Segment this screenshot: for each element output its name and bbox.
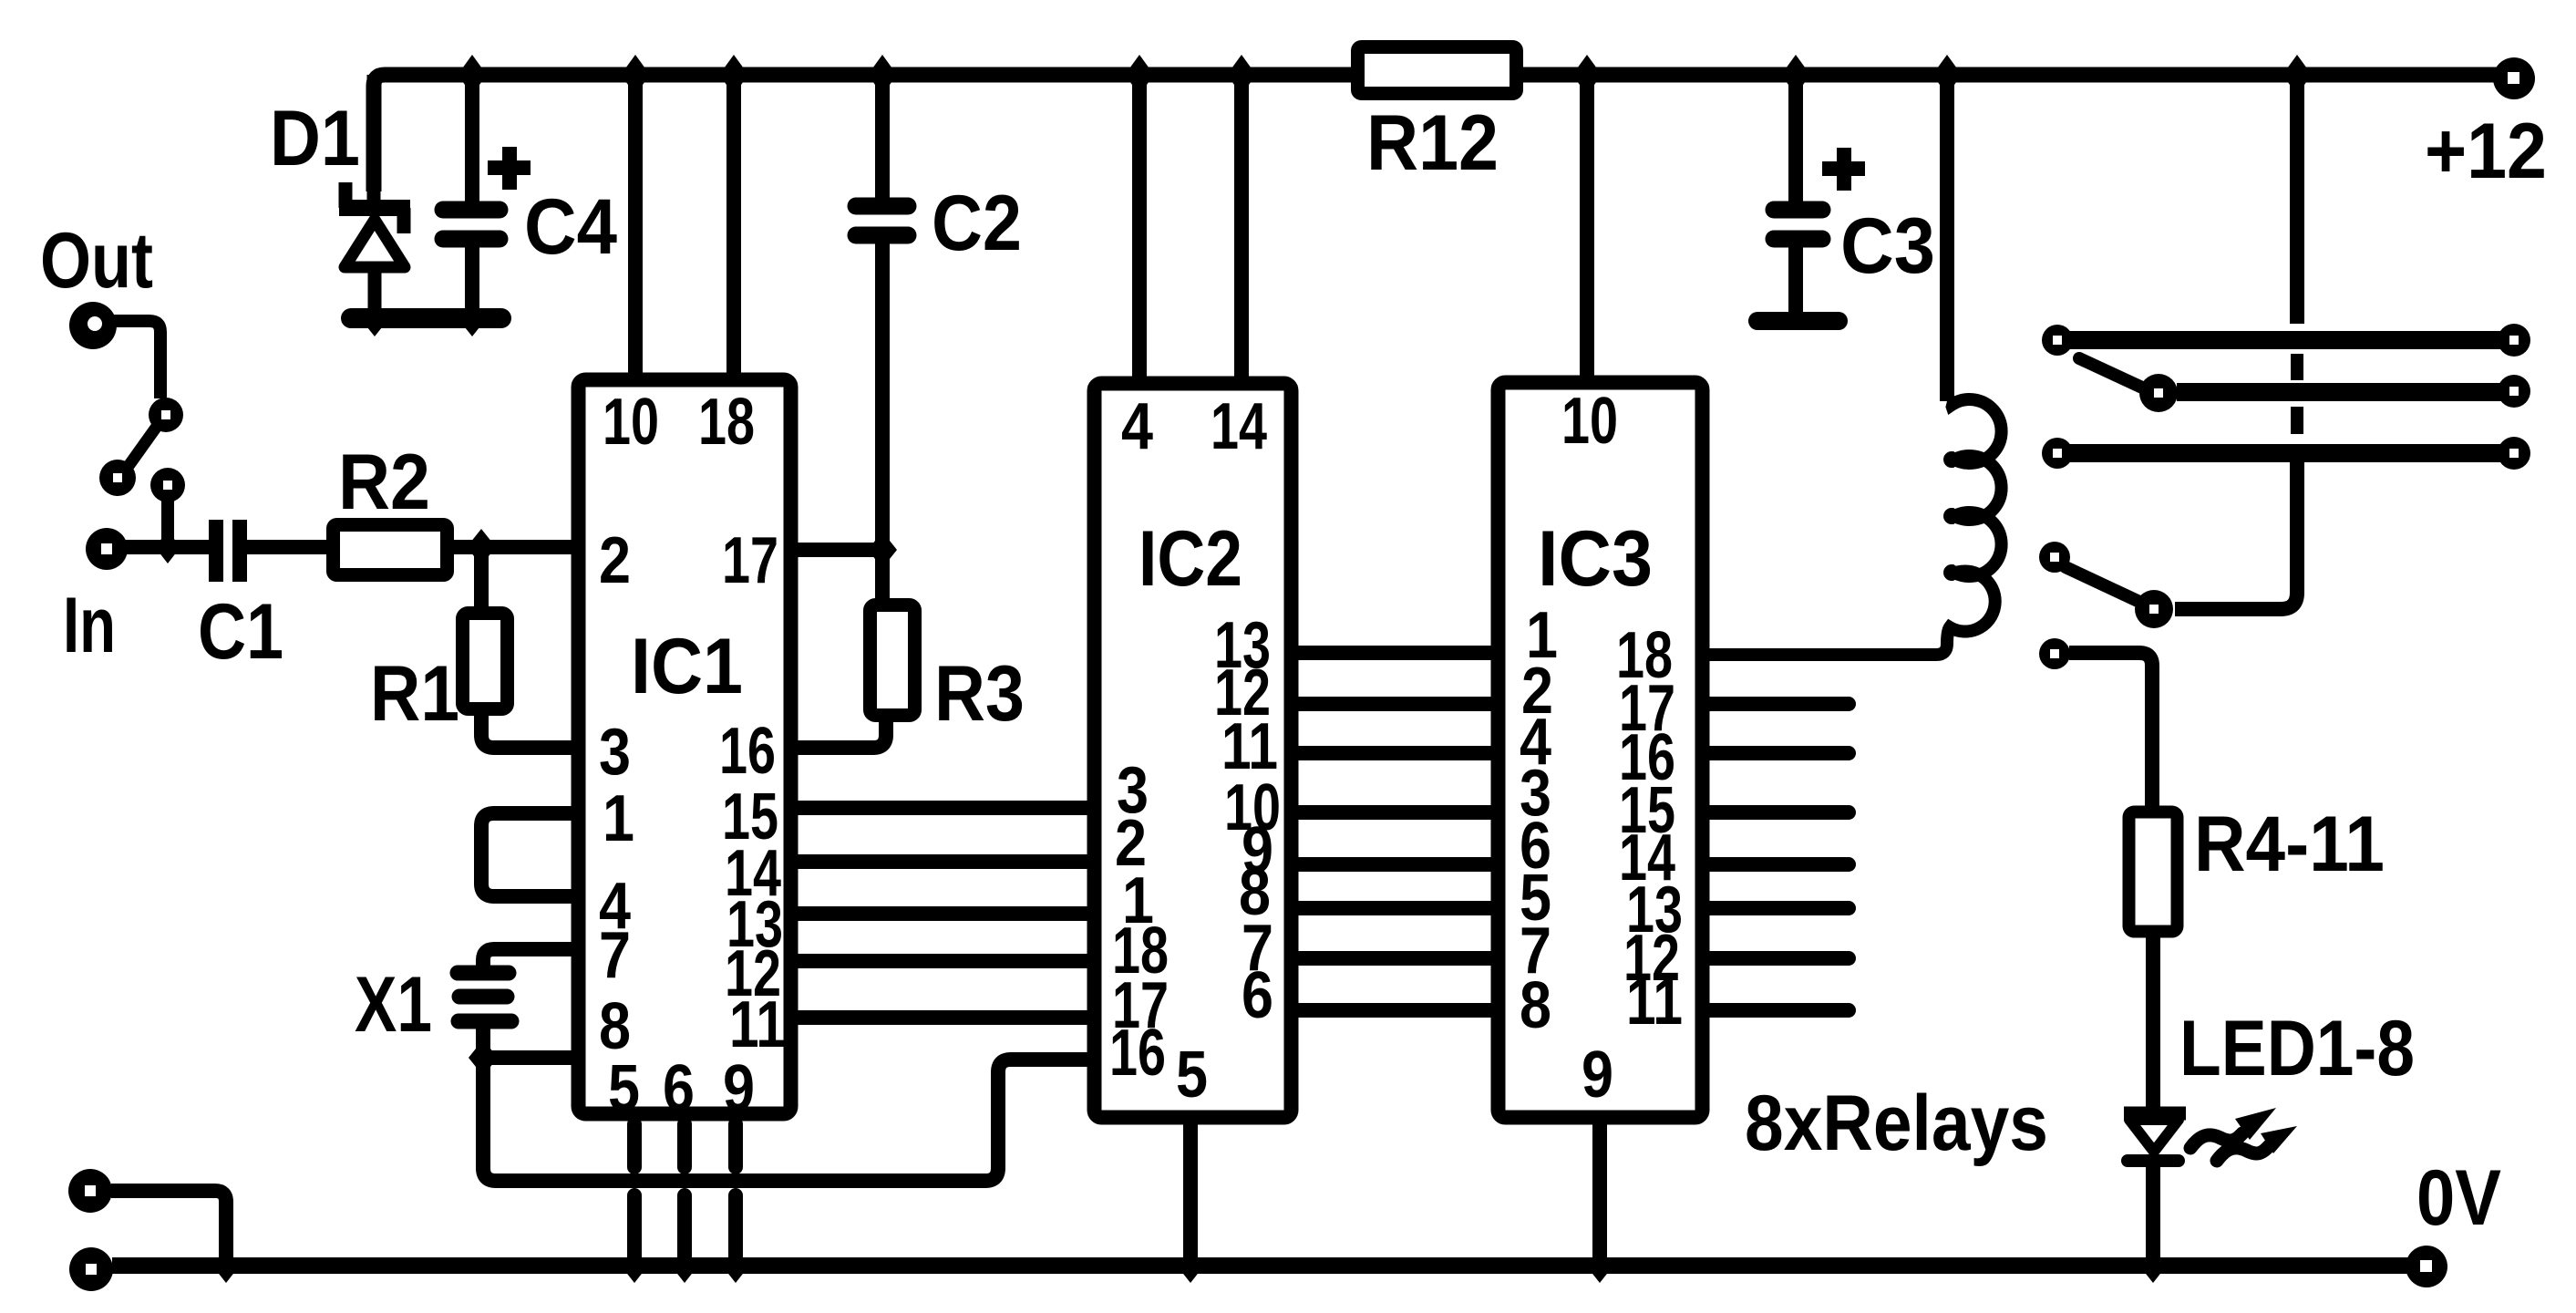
svg-text:R3: R3 — [934, 650, 1025, 738]
svg-text:X1: X1 — [355, 961, 432, 1049]
capacitor C1 plates — [216, 520, 240, 582]
terminal In — [86, 528, 128, 570]
terminal bottom-left lower — [69, 1247, 113, 1291]
wire R1 to IC1 pin3 — [481, 716, 575, 748]
wire IC3 pin17 stub — [1701, 697, 1849, 711]
svg-text:3: 3 — [599, 716, 631, 789]
wire Out terminal to switch — [114, 321, 160, 398]
node top rail / IC2 pin14 — [1227, 55, 1256, 95]
terminal Out — [69, 302, 117, 349]
wire IC1 pin7 to X1 — [483, 949, 578, 967]
svg-text:2: 2 — [599, 524, 631, 597]
node R2 / R1 / IC1 pin2 — [467, 529, 496, 565]
svg-text:11: 11 — [729, 988, 786, 1061]
wire X1 bottom stub — [476, 1029, 490, 1063]
wire IC2 pin5 stub — [1183, 1124, 1198, 1258]
svg-text:Out: Out — [40, 217, 153, 305]
wire IC1 pin1-pin4 loop — [481, 813, 575, 896]
wire IC3 pin15 stub — [1701, 805, 1849, 820]
node top rail / IC1 pin10 — [621, 55, 650, 95]
wire IC1 pin17 — [793, 543, 882, 557]
wire C3 branch lower — [1788, 239, 1803, 314]
wire IC3 pin14 stub — [1701, 857, 1849, 872]
node switch / In wire — [155, 531, 180, 563]
wire C2 branch upper — [875, 75, 890, 199]
svg-text:C4: C4 — [524, 183, 617, 271]
wire R4-11 to LED — [2146, 936, 2160, 1109]
wire relay +12 vertical upper — [2290, 75, 2304, 324]
node X1 / IC1 pin8 — [469, 1039, 498, 1076]
wire LED cathode to 0V — [2146, 1165, 2160, 1258]
wire relay row 2 to terminal — [2177, 383, 2511, 401]
wire In terminal to C1 — [126, 540, 210, 554]
wire relay group2 NO to R4-11 — [2069, 653, 2152, 807]
wire C1 to R2 — [247, 540, 326, 554]
svg-text:17: 17 — [722, 524, 778, 597]
wire C4 branch lower — [465, 239, 479, 318]
node top rail / IC2 pin4 — [1125, 55, 1154, 95]
switch upper contact — [149, 398, 183, 432]
terminal +12 — [2493, 57, 2535, 99]
svg-text:7: 7 — [599, 919, 631, 992]
svg-text:4: 4 — [1121, 390, 1153, 463]
resistor R12 — [1358, 47, 1517, 94]
relay contact row3 left — [2042, 438, 2073, 469]
resistor R2 — [334, 525, 448, 575]
svg-text:5: 5 — [1176, 1039, 1208, 1111]
wire R2 to IC1 pin2 — [454, 540, 575, 554]
wire IC1 pin9 stub upper — [728, 1124, 743, 1167]
node C4 bottom bar — [458, 300, 487, 336]
terminal 0V — [2406, 1246, 2447, 1287]
svg-text:10: 10 — [1561, 385, 1618, 458]
wire bus IC2 pin12 to IC3 pin2 — [1285, 697, 1499, 711]
node 0V rail / IC3 pin9 — [1586, 1248, 1613, 1283]
svg-text:6: 6 — [1242, 959, 1273, 1032]
capacitor C4 plates — [443, 210, 500, 239]
wire C2 to pin17 junction — [875, 237, 890, 602]
node 0V rail / IC1 pin9 — [722, 1248, 749, 1283]
capacitor C3 plates — [1774, 210, 1822, 239]
resistor R3 — [871, 605, 915, 716]
svg-text:8: 8 — [1520, 969, 1551, 1042]
node 0V rail / LED — [2139, 1248, 2167, 1283]
svg-text:C2: C2 — [932, 180, 1022, 267]
svg-text:R1: R1 — [370, 650, 459, 738]
svg-text:R2: R2 — [338, 439, 430, 526]
wire relay NC row 1 — [2060, 331, 2511, 349]
node 0V rail / IC1 pin6 — [671, 1248, 698, 1283]
op-amp IC3 box — [1499, 383, 1703, 1118]
wire bus IC1 pin12 to IC2 pin18 — [793, 954, 1094, 968]
switch pole contact — [99, 460, 136, 496]
wire IC2 pin14 supply — [1234, 75, 1249, 383]
svg-text:16: 16 — [1109, 1017, 1166, 1090]
svg-text:10: 10 — [603, 386, 659, 459]
svg-text:R12: R12 — [1366, 99, 1499, 187]
relay contact row1 right terminal — [2498, 324, 2530, 357]
wire relay linkage dash 1 — [2291, 354, 2303, 380]
svg-text:6: 6 — [663, 1052, 695, 1125]
svg-text:5: 5 — [608, 1052, 640, 1125]
wire IC3 pin13 stub — [1701, 901, 1849, 915]
svg-text:In: In — [63, 582, 116, 669]
svg-text:C1: C1 — [198, 588, 283, 676]
svg-text:0V: 0V — [2416, 1154, 2501, 1242]
svg-text:9: 9 — [1582, 1039, 1613, 1111]
relay group2 NO contact — [2039, 638, 2070, 669]
wire IC3 pin11 stub — [1701, 1003, 1849, 1018]
svg-text:C3: C3 — [1840, 202, 1935, 290]
node top rail / C3 — [1781, 55, 1810, 95]
op-amp IC1 box — [579, 380, 791, 1114]
wire X1 junction to IC2 pin16 — [483, 1060, 1093, 1181]
wire bus IC2 pin7 to IC3 pin7 — [1285, 951, 1499, 966]
capacitor C3 polarity plus — [1822, 148, 1865, 191]
LED LED1-8 symbol — [2124, 1113, 2186, 1161]
wire IC3 pin10 supply — [1580, 75, 1594, 383]
wire 0V bottom rail — [112, 1257, 2427, 1274]
wire switch lower contact stub — [161, 500, 174, 542]
wire bus IC1 pin13 to IC2 pin1 — [793, 906, 1094, 921]
node 0V rail / IC1 pin5 — [621, 1248, 648, 1283]
relay contact row2 right terminal — [2498, 375, 2530, 408]
inductor relay coil — [1701, 399, 2002, 655]
svg-text:LED1-8: LED1-8 — [2179, 1005, 2415, 1092]
resistor R4-11 — [2129, 812, 2178, 932]
capacitor C2 plates — [856, 206, 908, 235]
svg-text:16: 16 — [719, 715, 776, 788]
node 0V rail / left link — [212, 1248, 240, 1283]
wire bus IC2 pin6 to IC3 pin8 — [1285, 1003, 1499, 1018]
wire D1/C4 bottom bar — [351, 308, 501, 328]
wire IC1 pin18 supply — [726, 75, 741, 383]
svg-text:11: 11 — [1626, 966, 1683, 1039]
wire bus IC2 pin9 to IC3 pin6 — [1285, 857, 1499, 872]
wire IC3 pin16 stub — [1701, 746, 1849, 760]
wire IC1 pin10 supply — [628, 75, 643, 383]
wire X1 junction to IC1 pin8 — [483, 1050, 578, 1065]
node top rail / IC3 pin10 — [1572, 55, 1602, 95]
wire IC3 pin12 stub — [1701, 951, 1849, 966]
svg-text:1: 1 — [603, 782, 634, 855]
node top rail / relay common — [2282, 55, 2312, 95]
wire bus IC2 pin13 to IC3 pin1 — [1285, 646, 1499, 660]
wire +12 top rail — [374, 75, 2514, 191]
svg-text:14: 14 — [1211, 390, 1267, 463]
wire C3 bottom bar — [1757, 312, 1839, 330]
relay contact row1 left — [2042, 325, 2073, 356]
switch lower contact — [150, 468, 185, 502]
capacitor C4 polarity plus — [488, 147, 531, 190]
wire IC1 pin5 stub upper — [627, 1124, 642, 1167]
LED light emission arrows — [2190, 1108, 2297, 1161]
node top rail / C2 — [868, 55, 897, 95]
svg-text:8xRelays: 8xRelays — [1745, 1080, 2048, 1167]
wire R3 bottom to IC1 pin16 — [793, 720, 886, 748]
wire relay arm row 2 diagonal — [2079, 358, 2142, 388]
svg-text:9: 9 — [723, 1052, 755, 1125]
wire relay group2 arm diagonal — [2066, 567, 2138, 601]
wire switch arm — [129, 428, 156, 466]
node top rail / relay coil — [1932, 55, 1962, 95]
terminal bottom-left upper — [68, 1169, 112, 1213]
node C2 / R3 / IC1 pin17 — [868, 532, 897, 568]
wire relay linkage dash 2 — [2291, 407, 2303, 434]
wire relay common feed lower — [2175, 460, 2297, 609]
wire IC3 pin9 stub — [1592, 1124, 1607, 1258]
svg-text:IC3: IC3 — [1538, 515, 1653, 603]
svg-text:D1: D1 — [270, 95, 360, 182]
wire bus IC1 pin15 to IC2 pin3 — [793, 801, 1094, 815]
op-amp IC2 box — [1095, 384, 1292, 1118]
node 0V rail / IC2 pin5 — [1177, 1248, 1204, 1283]
resistor R1 — [463, 614, 508, 709]
wire C4 branch upper — [465, 75, 479, 202]
node D1 bottom bar — [360, 300, 389, 336]
wire relay NO row 3 — [2060, 444, 2511, 462]
wire bus IC2 pin11 to IC3 pin4 — [1285, 746, 1499, 760]
wire IC1 pin6 stub upper — [677, 1124, 692, 1167]
svg-text:IC2: IC2 — [1139, 515, 1242, 603]
svg-text:IC1: IC1 — [631, 623, 743, 710]
wire IC2 pin4 supply — [1132, 75, 1147, 383]
relay contact row3 right terminal — [2498, 437, 2530, 470]
wire bus IC1 pin14 to IC2 pin2 — [793, 854, 1094, 869]
wire IC1 pin6 stub lower — [677, 1195, 692, 1258]
wire relay coil branch — [1940, 75, 1954, 401]
crystal X1 — [458, 973, 511, 1021]
diode D1 (zener) — [339, 75, 410, 318]
relay group2 common contact — [2039, 542, 2070, 573]
wire IC1 pin5 stub lower — [627, 1195, 642, 1258]
node top rail / IC1 pin18 — [719, 55, 748, 95]
svg-text:18: 18 — [698, 386, 755, 459]
wire bus IC2 pin10 to IC3 pin3 — [1285, 805, 1499, 820]
wire bus IC2 pin8 to IC3 pin5 — [1285, 901, 1499, 915]
wire junction to R1 — [474, 547, 489, 606]
node top rail / C4 — [458, 55, 487, 95]
svg-text:R4-11: R4-11 — [2194, 801, 2385, 888]
svg-text:+12: +12 — [2425, 108, 2547, 195]
relay contact row2 arm pivot — [2139, 374, 2178, 412]
wire C3 branch upper — [1788, 75, 1803, 202]
wire bottom-left terminal link — [111, 1191, 226, 1258]
relay group2 arm pivot — [2135, 590, 2173, 628]
wire bus IC1 pin11 to IC2 pin17 — [793, 1010, 1094, 1025]
wire IC1 pin9 stub lower — [728, 1195, 743, 1258]
